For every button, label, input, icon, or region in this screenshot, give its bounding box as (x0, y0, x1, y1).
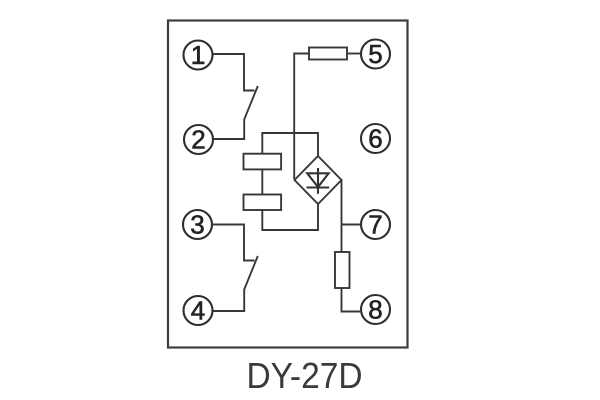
svg-text:DY-27D: DY-27D (247, 355, 363, 396)
svg-text:7: 7 (368, 210, 382, 240)
svg-text:3: 3 (190, 210, 204, 240)
svg-text:4: 4 (191, 296, 205, 326)
svg-text:2: 2 (191, 125, 205, 155)
svg-text:1: 1 (191, 40, 205, 70)
svg-text:5: 5 (368, 39, 382, 69)
svg-text:6: 6 (368, 124, 382, 154)
svg-text:8: 8 (368, 295, 382, 325)
